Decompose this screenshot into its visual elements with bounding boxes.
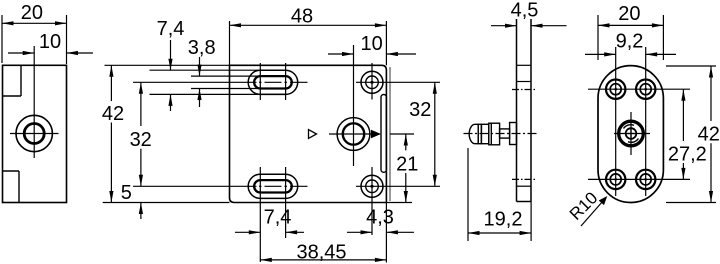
bottom right hole outer	[361, 175, 383, 197]
left view hole horizontal centerline	[10, 133, 59, 135]
dimension 20 (right view) extension lines	[598, 15, 663, 60]
top right hole outer	[361, 71, 383, 93]
dimension 3,8	[199, 57, 201, 107]
dimension 42 (main) line	[110, 65, 112, 202]
svg-text:3,8: 3,8	[188, 37, 216, 59]
svg-text:42: 42	[102, 103, 124, 125]
dimension 32 (right side) line	[434, 82, 436, 186]
right view top left hole inner	[610, 84, 621, 95]
right view bottom left hole outer	[606, 170, 625, 189]
right view center hub inner circle	[626, 128, 637, 139]
top slot horizontal centerline	[133, 81, 308, 83]
main view plate outline	[230, 65, 387, 202]
shaft circle vertical centerline	[353, 45, 355, 166]
pin neck	[500, 129, 510, 138]
main view right edge upper extension	[385, 21, 387, 65]
right view bottom right hole outer	[636, 170, 655, 189]
left view hole inner circle	[24, 124, 44, 144]
dimension 32 (left side) line	[140, 82, 142, 186]
top slot inner obround	[254, 76, 292, 88]
right view top left hole outer	[606, 80, 625, 99]
shaft inner circle	[343, 123, 364, 144]
dimension 21 line	[405, 134, 407, 203]
dimension 42 (right view) extension lines	[666, 66, 716, 203]
dimension 9,2 line	[585, 53, 676, 55]
svg-text:19,2: 19,2	[484, 209, 523, 231]
shaft outer circle	[337, 118, 370, 151]
edge slot	[381, 95, 386, 173]
svg-text:5: 5	[121, 182, 132, 204]
top right hole inner	[366, 76, 379, 89]
pin flange	[510, 123, 517, 145]
dimension 19,2 right extension line	[530, 202, 532, 242]
svg-text:4,3: 4,3	[366, 207, 394, 229]
svg-text:21: 21	[396, 154, 418, 176]
right view top right hole inner	[640, 84, 651, 95]
main view top edge extension line	[105, 64, 230, 66]
svg-text:10: 10	[360, 33, 382, 55]
dimension 19,2 left extension line	[467, 148, 469, 241]
svg-text:48: 48	[291, 6, 313, 28]
dimension 20 (left view) extension lines	[2, 15, 67, 64]
svg-text:7,4: 7,4	[264, 207, 292, 229]
dimension 27,2 line	[682, 89, 684, 179]
dimension 4,3 line	[347, 231, 414, 233]
svg-text:32: 32	[409, 99, 431, 121]
top slot left vertical centerline	[259, 63, 261, 100]
main view right folded edge line	[389, 67, 391, 201]
bottom right hole horizontal centerline / 32 extension	[356, 185, 440, 187]
pin centerline	[464, 133, 538, 135]
right view center hub horizontal centerline	[614, 133, 650, 135]
dimension 20 (right view) line	[598, 24, 663, 26]
top right hole vertical centerline	[371, 63, 373, 100]
slot top inner edge extension	[191, 75, 286, 77]
right view plate outline	[598, 66, 663, 203]
main view right edge lower extension	[385, 203, 387, 263]
middle view flange right face	[530, 19, 532, 202]
middle view upper band line 2	[517, 81, 532, 83]
bottom slot left vertical centerline	[259, 167, 261, 262]
svg-text:10: 10	[39, 31, 61, 53]
right view center hub arcs	[624, 125, 639, 143]
dimension 7,4 (top)	[170, 40, 172, 111]
right view center hub outer ring	[619, 121, 644, 146]
dimension 4,5 line	[491, 25, 567, 27]
dimension 7,4 (bottom) line	[235, 231, 304, 233]
middle view flange bottom edge	[517, 201, 532, 203]
dimension 10 (main) line	[328, 53, 416, 55]
top slot right vertical centerline	[285, 63, 287, 100]
right view right hole column centerline	[645, 47, 647, 196]
right view bottom left hole inner	[610, 174, 621, 185]
direction marker triangle	[309, 130, 317, 139]
bottom slot horizontal centerline	[133, 185, 308, 187]
dimension 21 extension line	[390, 133, 414, 135]
bottom slot inner obround	[254, 180, 292, 192]
main view bottom edge extension line	[103, 202, 412, 204]
bottom slot right vertical centerline	[285, 167, 287, 238]
middle view flange left face	[516, 19, 518, 202]
left view bottom step edge	[3, 171, 20, 203]
left view hole outer circle	[16, 115, 52, 151]
bottom slot outer obround	[248, 174, 298, 198]
right view left hole column centerline	[615, 47, 617, 196]
left view top step edge	[3, 65, 22, 96]
slot top outer edge extension	[150, 69, 287, 71]
top right hole center dot	[370, 81, 373, 84]
dimension 48 line	[230, 24, 387, 26]
top slot outer obround	[248, 70, 298, 94]
right view center hub vertical centerline	[630, 112, 632, 155]
svg-text:20: 20	[21, 2, 43, 24]
right view top right hole outer	[636, 80, 655, 99]
svg-text:9,2: 9,2	[616, 31, 644, 53]
middle view upper centerline mark	[512, 89, 536, 91]
svg-text:42: 42	[698, 124, 720, 146]
pin dome nose	[469, 124, 478, 143]
dimension 42 (right view) line	[710, 66, 712, 203]
bottom right hole inner	[366, 180, 379, 193]
middle view lower centerline mark	[512, 178, 536, 180]
svg-text:7,4: 7,4	[157, 18, 185, 40]
right view center hub cross	[627, 129, 636, 138]
R10 leader line	[581, 201, 603, 226]
pin ring inner line	[490, 123, 492, 145]
left view outline	[3, 65, 67, 202]
dimension 5 line	[140, 203, 142, 220]
right view bottom holes row centerline	[588, 178, 690, 180]
svg-text:38,45: 38,45	[296, 242, 346, 264]
svg-text:4,5: 4,5	[511, 0, 539, 21]
middle view upper band line 1	[517, 64, 532, 66]
svg-text:20: 20	[618, 3, 640, 25]
right view top holes row centerline	[588, 88, 690, 90]
slot bottom outer edge extension	[150, 93, 287, 95]
pin body	[481, 124, 488, 143]
dimension 20 (left view) line	[2, 22, 67, 24]
svg-text:32: 32	[130, 129, 152, 151]
pin band	[478, 124, 481, 143]
left view hole vertical centerline	[33, 46, 35, 158]
dimension 10 (left view) line	[8, 52, 93, 54]
right view bottom right hole inner	[640, 174, 651, 185]
travel arrow to edge slot	[371, 130, 381, 138]
dimension 38,45 line	[260, 259, 386, 261]
middle view lower step line	[517, 185, 532, 187]
svg-text:27,2: 27,2	[668, 144, 707, 166]
slot bottom inner edge extension	[191, 88, 286, 90]
top right hole horizontal centerline / 32 extension	[356, 81, 440, 83]
pin ring	[489, 123, 500, 145]
dimension 19,2 line	[468, 232, 531, 234]
bottom right hole center dot	[370, 185, 373, 188]
bottom right hole vertical centerline	[371, 167, 373, 235]
main view fold line upper extension	[229, 21, 231, 65]
shaft circle horizontal centerline	[329, 133, 372, 135]
